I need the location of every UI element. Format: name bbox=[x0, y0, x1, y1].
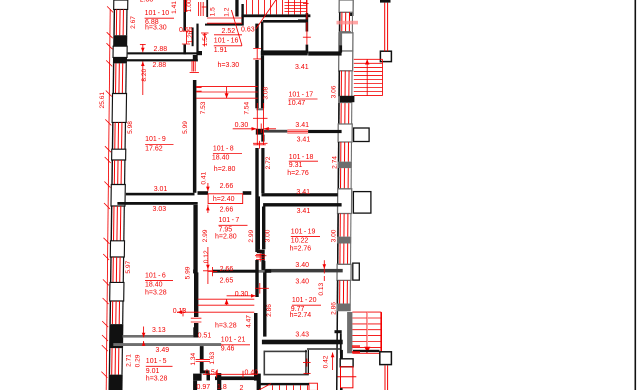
corridor ramp steps bbox=[196, 87, 258, 99]
svg-text:h=2.76: h=2.76 bbox=[290, 246, 312, 253]
room R1 right wall bbox=[303, 13, 308, 51]
dim 0.13 long line bbox=[177, 308, 254, 316]
svg-text:17.62: 17.62 bbox=[145, 145, 163, 152]
wall 101-6 / 101-5 (double) bbox=[113, 327, 221, 346]
svg-text:3.00: 3.00 bbox=[265, 229, 272, 242]
dim 0.30 upper arrows bbox=[233, 127, 276, 131]
dimension texts horizontal bbox=[140, 0, 311, 390]
door R1 cross + red edge bbox=[303, 0, 311, 45]
window marks x185 top bbox=[185, 0, 187, 12]
svg-text:0.13: 0.13 bbox=[318, 282, 325, 295]
stair upper right (hatched) bbox=[354, 59, 383, 95]
svg-text:1.63: 1.63 bbox=[209, 351, 216, 364]
svg-text:2.66: 2.66 bbox=[220, 207, 234, 214]
room label 101-17 bbox=[288, 92, 318, 107]
svg-text:0.51: 0.51 bbox=[198, 332, 212, 339]
exterior pier stub right y263 bbox=[353, 263, 360, 280]
room label 101-10 bbox=[145, 10, 174, 32]
wall 101-20 bottom (building) bbox=[262, 340, 343, 345]
wall 101-17 top bbox=[261, 51, 342, 56]
wall left of 101-17/18 bbox=[261, 55, 265, 193]
svg-text:0.13: 0.13 bbox=[173, 308, 187, 315]
corridor right wall (long) bbox=[254, 24, 259, 381]
bottom stair top wall bbox=[257, 383, 309, 385]
landing red lines above 101-16 bbox=[207, 18, 242, 23]
wall right of 101-10 bbox=[183, 0, 186, 54]
stair red outline box right end bbox=[309, 383, 317, 390]
wall corner right of 101-20 bbox=[335, 330, 342, 353]
stub corridor/101-17 gray bbox=[256, 108, 263, 110]
wall top x207 bbox=[206, 0, 208, 17]
top stair (hatched) bbox=[247, 0, 307, 29]
door 101-20 cross bbox=[255, 283, 269, 294]
exterior wall left (with windows) bbox=[108, 0, 127, 390]
svg-text:5.98: 5.98 bbox=[127, 121, 134, 134]
dim 0.30 lower arrow bbox=[227, 294, 256, 298]
door 101-18 cross bbox=[253, 141, 265, 149]
svg-text:10.47: 10.47 bbox=[288, 100, 306, 107]
svg-text:h=3.28: h=3.28 bbox=[145, 289, 167, 296]
dim line 8.20 bbox=[141, 61, 145, 95]
dim arrow at wall y191 bbox=[206, 183, 210, 191]
svg-text:1.41: 1.41 bbox=[171, 1, 178, 14]
svg-text:2.88: 2.88 bbox=[153, 62, 167, 69]
dimension text 25.61 bbox=[99, 92, 106, 109]
vestibule dim ticks 1.54 bbox=[201, 33, 209, 47]
svg-text:3.41: 3.41 bbox=[297, 137, 311, 144]
dim line 0.54/0.40 bbox=[203, 371, 258, 378]
dim 2.52 line bbox=[214, 34, 242, 36]
svg-text:0.63: 0.63 bbox=[241, 27, 255, 34]
svg-text:3.41: 3.41 bbox=[297, 208, 311, 215]
svg-text:3.41: 3.41 bbox=[295, 64, 309, 71]
closet divider wall (double) bbox=[305, 350, 309, 374]
svg-text:2.65: 2.65 bbox=[220, 277, 234, 284]
svg-text:9.46: 9.46 bbox=[221, 346, 235, 353]
wall x236 top bbox=[235, 0, 238, 17]
wall 101-5 top right verticals bbox=[200, 346, 210, 380]
svg-text:0.30: 0.30 bbox=[235, 291, 249, 298]
room label 101-5 bbox=[146, 358, 173, 383]
svg-text:2.86: 2.86 bbox=[266, 304, 273, 317]
room right wall thick bbox=[340, 350, 343, 359]
room label 101-7 bbox=[215, 217, 248, 240]
svg-text:7.53: 7.53 bbox=[200, 101, 207, 114]
svg-text:3.40: 3.40 bbox=[295, 279, 309, 286]
svg-text:0.97: 0.97 bbox=[197, 384, 211, 390]
svg-text:0.29: 0.29 bbox=[135, 354, 142, 367]
101-21 right wall bottom part bbox=[257, 374, 261, 390]
svg-text:101 - 8: 101 - 8 bbox=[213, 146, 234, 153]
corridor left wall mid (101-6 right) bbox=[193, 205, 197, 270]
svg-text:3.00: 3.00 bbox=[331, 229, 338, 242]
svg-text:8.20: 8.20 bbox=[141, 68, 148, 81]
svg-text:25.61: 25.61 bbox=[99, 92, 106, 109]
room label 101-16 bbox=[214, 38, 242, 69]
stair top landing wall bbox=[241, 14, 310, 17]
svg-text:3.41: 3.41 bbox=[296, 189, 310, 196]
wall left of 101-20 bbox=[263, 272, 266, 336]
svg-text:2.74: 2.74 bbox=[331, 156, 338, 169]
room label 101-18 bbox=[287, 154, 318, 177]
door ticks x195 y320 bbox=[191, 318, 202, 322]
door 101-7 cross bbox=[208, 267, 217, 276]
wall x219 bottom bbox=[217, 373, 221, 390]
wall 101-8 / 101-7 with opening h=2.40 bbox=[198, 191, 252, 195]
svg-text:h=3.28: h=3.28 bbox=[215, 322, 237, 329]
svg-text:9.31: 9.31 bbox=[289, 162, 303, 169]
exterior pier stub right y130 bbox=[354, 128, 370, 142]
svg-text:3.41: 3.41 bbox=[295, 122, 309, 129]
corridor 101-8 left wall upper bbox=[193, 55, 198, 193]
svg-text:2.66: 2.66 bbox=[220, 183, 234, 190]
room R2 right wall bbox=[339, 31, 351, 53]
wall x242 top bbox=[241, 4, 243, 26]
101-21 bottom wall bbox=[215, 376, 259, 380]
corridor left wall low bbox=[194, 272, 198, 337]
svg-text:h=2.80: h=2.80 bbox=[214, 166, 236, 173]
wall left of 101-16 bbox=[196, 24, 202, 56]
wall 101-16 top bbox=[205, 24, 242, 26]
dim lines corridor bottom bbox=[198, 299, 255, 305]
svg-text:3.01: 3.01 bbox=[154, 186, 168, 193]
exterior pier stub right y192 bbox=[353, 192, 371, 214]
svg-text:5.97: 5.97 bbox=[125, 260, 132, 273]
svg-text:1.91: 1.91 bbox=[214, 47, 228, 54]
wall 101-9 / 101-6 (double) bbox=[117, 193, 197, 205]
svg-text:1.5: 1.5 bbox=[209, 7, 216, 16]
svg-text:3.49: 3.49 bbox=[156, 347, 170, 354]
room label 101-8 bbox=[212, 146, 242, 173]
wall 101-17 / 101-18 bbox=[261, 130, 342, 133]
room R1 left wall bbox=[261, 22, 263, 54]
svg-text:101 - 17: 101 - 17 bbox=[289, 92, 314, 99]
wall left of 101-19 bbox=[262, 207, 265, 269]
closet bottom wall bbox=[264, 374, 309, 376]
svg-text:3.40: 3.40 bbox=[295, 262, 309, 269]
svg-text:h=3.28: h=3.28 bbox=[146, 376, 168, 383]
room R2 top wall stub bbox=[298, 19, 308, 22]
closet room bottom right: top wall bbox=[264, 348, 340, 352]
svg-text:3.43: 3.43 bbox=[295, 332, 309, 339]
svg-text:0.12: 0.12 bbox=[203, 250, 210, 263]
wall 101-19 / 101-20 bbox=[262, 269, 343, 273]
svg-text:2.67: 2.67 bbox=[130, 16, 137, 29]
svg-text:2: 2 bbox=[240, 385, 244, 390]
svg-text:3.13: 3.13 bbox=[152, 327, 166, 334]
room label 101-6 bbox=[145, 273, 173, 297]
soft red band y22 bbox=[337, 21, 359, 25]
svg-text:101 - 19: 101 - 19 bbox=[291, 229, 316, 236]
svg-text:1.54: 1.54 bbox=[202, 33, 209, 46]
room R1 bottom wall bbox=[261, 50, 308, 53]
pier outline bottom right bbox=[340, 359, 353, 367]
door 101-19 cross bbox=[255, 250, 266, 262]
svg-text:2.88: 2.88 bbox=[154, 46, 168, 53]
dim 0.13 right vertical bbox=[323, 260, 327, 281]
wall 101-7 / 101-21 bbox=[193, 270, 271, 274]
svg-text:101 - 6: 101 - 6 bbox=[145, 273, 166, 280]
svg-text:18.40: 18.40 bbox=[212, 155, 230, 162]
svg-text:h=2.74: h=2.74 bbox=[290, 312, 312, 319]
dim arrow 2.88 upper bbox=[140, 44, 146, 52]
svg-text:18.40: 18.40 bbox=[145, 281, 163, 288]
dim 101-17 bottom arrow bbox=[260, 124, 262, 134]
column bottom right bbox=[380, 352, 392, 365]
door 101-16 ticks bbox=[253, 49, 261, 59]
svg-text:0.30: 0.30 bbox=[235, 122, 249, 129]
svg-text:1.26: 1.26 bbox=[187, 30, 194, 43]
svg-text:10.22: 10.22 bbox=[291, 238, 309, 245]
svg-text:3.03: 3.03 bbox=[153, 206, 167, 213]
drawing frame border bbox=[635, 0, 637, 390]
svg-text:h=3.30: h=3.30 bbox=[218, 62, 240, 69]
svg-text:101 - 16: 101 - 16 bbox=[214, 38, 239, 45]
svg-text:2.99: 2.99 bbox=[248, 229, 255, 242]
room label 101-21 bbox=[221, 337, 250, 353]
room label 101-9 bbox=[145, 136, 173, 152]
svg-text:h=3.30: h=3.30 bbox=[145, 25, 167, 32]
svg-text:101 - 20: 101 - 20 bbox=[292, 297, 317, 304]
red tick pair right wall y346/352 bbox=[352, 346, 360, 353]
dim 0.12 line bbox=[207, 247, 209, 267]
wall gray band left of stair2 bbox=[347, 312, 352, 353]
svg-text:101 - 21: 101 - 21 bbox=[221, 337, 246, 344]
dim 0.42 vertical bbox=[331, 353, 335, 371]
svg-text:4.47: 4.47 bbox=[245, 315, 252, 328]
svg-text:1.00: 1.00 bbox=[186, 0, 193, 12]
wall stub below stair1 bbox=[340, 96, 354, 102]
svg-text:0.41: 0.41 bbox=[201, 171, 208, 184]
svg-text:h=2.80: h=2.80 bbox=[215, 234, 237, 241]
door 101-9 red hatch bbox=[190, 61, 199, 73]
svg-text:2.66: 2.66 bbox=[220, 266, 234, 273]
dimension texts vertical bbox=[125, 0, 338, 368]
svg-text:0.54: 0.54 bbox=[205, 370, 219, 377]
niche red marks x258 y252-262 bbox=[256, 255, 265, 260]
svg-text:3.08: 3.08 bbox=[263, 86, 270, 99]
svg-text:2.71: 2.71 bbox=[125, 354, 132, 367]
svg-text:0.42: 0.42 bbox=[323, 355, 330, 368]
door tick 101-5 bbox=[196, 359, 210, 361]
wall between 101-10 and 101-9 (double) bbox=[127, 52, 198, 61]
svg-text:3.06: 3.06 bbox=[330, 85, 337, 98]
svg-text:101 - 10: 101 - 10 bbox=[145, 10, 170, 17]
svg-text:101 - 9: 101 - 9 bbox=[145, 136, 166, 143]
room label 101-20 bbox=[290, 297, 321, 319]
exterior wall right (with windows) bbox=[336, 0, 353, 390]
svg-text:1.8: 1.8 bbox=[217, 384, 227, 390]
svg-text:2.88: 2.88 bbox=[140, 0, 154, 4]
window red box bottom right bbox=[338, 367, 357, 390]
wall bottom-left L bbox=[193, 374, 202, 390]
svg-text:101 - 18: 101 - 18 bbox=[289, 154, 314, 161]
svg-text:9.01: 9.01 bbox=[146, 368, 160, 375]
leader 0.63 bbox=[231, 10, 242, 46]
dimension chain left bbox=[101, 6, 113, 390]
closet left wall bbox=[264, 351, 266, 376]
vestibule wall x192 bbox=[192, 28, 194, 47]
svg-text:5.99: 5.99 bbox=[185, 266, 192, 279]
bottom stair (hatched) bbox=[259, 384, 308, 390]
svg-text:2.86: 2.86 bbox=[331, 302, 338, 315]
wall right of 101-7 (jogged) bbox=[257, 196, 265, 270]
svg-text:7.54: 7.54 bbox=[243, 101, 250, 114]
stub wall to column bbox=[353, 350, 380, 352]
room label 101-19 bbox=[290, 229, 320, 253]
svg-text:2.72: 2.72 bbox=[265, 156, 272, 169]
corner box corridor/101-17 bbox=[256, 129, 264, 135]
window tick pair x198 y87 bbox=[196, 88, 201, 92]
door 101-10 ticks bbox=[182, 31, 190, 44]
svg-text:2.99: 2.99 bbox=[202, 229, 209, 242]
dim ticks 2.66/2.65 bbox=[203, 265, 213, 284]
column top right bbox=[380, 51, 391, 61]
svg-text:101 - 5: 101 - 5 bbox=[146, 358, 167, 365]
svg-text:101 - 7: 101 - 7 bbox=[219, 217, 240, 224]
svg-text:0.40: 0.40 bbox=[245, 370, 259, 377]
opening 101-17 red jambs bbox=[253, 103, 268, 145]
svg-text:2.52: 2.52 bbox=[222, 28, 236, 35]
door closet crosses bbox=[303, 359, 311, 374]
svg-text:h=2.76: h=2.76 bbox=[287, 170, 309, 177]
dim 2.66 arrow 101-7 bbox=[206, 205, 210, 213]
wall 101-18 / 101-19 (double) bbox=[262, 193, 342, 206]
railing bottom right bbox=[385, 366, 388, 390]
room R1 top wall bbox=[263, 20, 308, 23]
stair lower right (hatched) bbox=[352, 312, 381, 353]
svg-text:1.2: 1.2 bbox=[224, 7, 231, 16]
svg-text:1.34: 1.34 bbox=[190, 352, 197, 365]
top-left tick marks near x204 bbox=[199, 2, 207, 16]
railing top right bbox=[380, 0, 391, 51]
opening h=2.40 red outline bbox=[208, 194, 243, 204]
dim arrow 3.13/3.49 bbox=[142, 327, 146, 347]
svg-text:h=2.40: h=2.40 bbox=[213, 196, 235, 203]
svg-text:5.99: 5.99 bbox=[182, 121, 189, 134]
